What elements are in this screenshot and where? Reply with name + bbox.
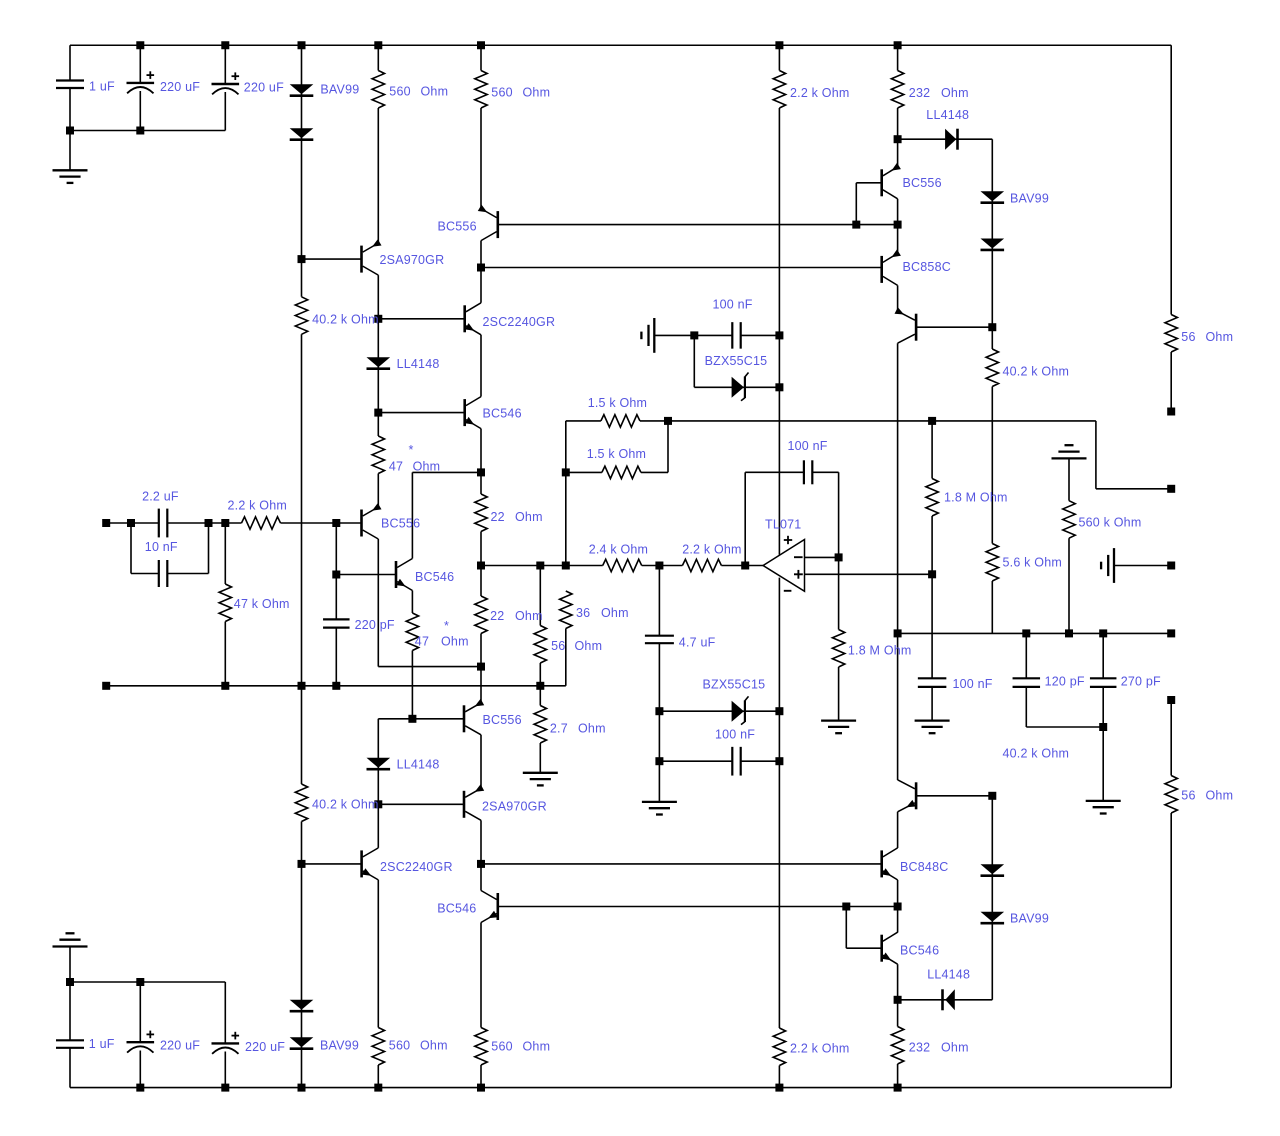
svg-text:BC858C: BC858C <box>903 260 951 274</box>
svg-text:100 nF: 100 nF <box>713 298 753 312</box>
svg-text:560 k Ohm: 560 k Ohm <box>1079 516 1142 530</box>
svg-text:47 k Ohm: 47 k Ohm <box>234 597 290 611</box>
svg-text:BAV99: BAV99 <box>1010 192 1049 206</box>
svg-text:2.2 k Ohm: 2.2 k Ohm <box>682 543 741 557</box>
svg-text:BZX55C15: BZX55C15 <box>703 678 766 692</box>
svg-text:1 uF: 1 uF <box>89 1037 115 1051</box>
svg-text:2.2 k Ohm: 2.2 k Ohm <box>790 86 849 100</box>
svg-text:*: * <box>444 619 449 633</box>
svg-text:232: 232 <box>909 1041 930 1055</box>
svg-text:BC556: BC556 <box>483 713 522 727</box>
svg-text:47: 47 <box>415 635 429 649</box>
svg-text:BC546: BC546 <box>415 570 454 584</box>
svg-text:232: 232 <box>909 86 930 100</box>
svg-text:100 nF: 100 nF <box>953 677 993 691</box>
svg-text:2SA970GR: 2SA970GR <box>380 253 445 267</box>
svg-text:1.8 M Ohm: 1.8 M Ohm <box>848 644 912 658</box>
svg-text:2.2 k Ohm: 2.2 k Ohm <box>790 1042 849 1056</box>
svg-text:5.6 k Ohm: 5.6 k Ohm <box>1003 556 1062 570</box>
svg-text:Ohm: Ohm <box>420 1039 448 1053</box>
svg-text:2SC2240GR: 2SC2240GR <box>483 315 556 329</box>
svg-text:220 uF: 220 uF <box>244 81 284 95</box>
svg-text:56: 56 <box>1181 789 1195 803</box>
svg-text:Ohm: Ohm <box>515 609 543 623</box>
svg-text:BAV99: BAV99 <box>320 1039 359 1053</box>
svg-text:100 nF: 100 nF <box>788 439 828 453</box>
svg-text:LL4148: LL4148 <box>927 968 970 982</box>
svg-text:1.8 M Ohm: 1.8 M Ohm <box>944 491 1008 505</box>
svg-text:Ohm: Ohm <box>441 635 469 649</box>
svg-text:1 uF: 1 uF <box>89 80 115 94</box>
svg-text:22: 22 <box>491 510 505 524</box>
svg-text:22: 22 <box>490 609 504 623</box>
svg-text:100 nF: 100 nF <box>715 728 755 742</box>
svg-text:40.2 k Ohm: 40.2 k Ohm <box>1003 365 1070 379</box>
svg-text:220 pF: 220 pF <box>355 618 395 632</box>
svg-text:2SC2240GR: 2SC2240GR <box>380 860 453 874</box>
svg-text:10 nF: 10 nF <box>145 540 178 554</box>
svg-text:560: 560 <box>389 1039 410 1053</box>
svg-text:1.5 k Ohm: 1.5 k Ohm <box>587 447 646 461</box>
svg-text:BC556: BC556 <box>438 220 477 234</box>
svg-text:47: 47 <box>389 459 403 473</box>
svg-text:LL4148: LL4148 <box>926 108 969 122</box>
svg-text:Ohm: Ohm <box>575 639 603 653</box>
svg-text:Ohm: Ohm <box>515 510 543 524</box>
svg-text:TL071: TL071 <box>765 518 801 532</box>
svg-text:BAV99: BAV99 <box>1010 912 1049 926</box>
svg-text:1.5 k Ohm: 1.5 k Ohm <box>588 396 647 410</box>
svg-text:Ohm: Ohm <box>941 1041 969 1055</box>
svg-text:2.2 uF: 2.2 uF <box>142 489 179 503</box>
svg-text:220 uF: 220 uF <box>160 80 200 94</box>
svg-text:560: 560 <box>389 85 410 99</box>
svg-text:Ohm: Ohm <box>413 459 441 473</box>
svg-text:56: 56 <box>551 639 565 653</box>
svg-text:2.7: 2.7 <box>550 722 568 736</box>
svg-text:40.2 k Ohm: 40.2 k Ohm <box>312 313 379 327</box>
svg-text:Ohm: Ohm <box>523 86 551 100</box>
svg-text:BAV99: BAV99 <box>320 83 359 97</box>
svg-text:40.2 k Ohm: 40.2 k Ohm <box>312 798 379 812</box>
svg-text:BC546: BC546 <box>437 902 476 916</box>
svg-text:560: 560 <box>491 1040 512 1054</box>
svg-text:Ohm: Ohm <box>523 1040 551 1054</box>
svg-text:*: * <box>409 443 414 457</box>
svg-text:BC546: BC546 <box>900 944 939 958</box>
svg-text:Ohm: Ohm <box>1206 330 1234 344</box>
svg-text:40.2 k Ohm: 40.2 k Ohm <box>1003 747 1070 761</box>
svg-text:Ohm: Ohm <box>601 606 629 620</box>
svg-text:4.7 uF: 4.7 uF <box>679 636 716 650</box>
svg-text:LL4148: LL4148 <box>397 357 440 371</box>
svg-text:270 pF: 270 pF <box>1121 675 1161 689</box>
svg-text:BZX55C15: BZX55C15 <box>705 354 768 368</box>
svg-text:560: 560 <box>491 86 512 100</box>
svg-text:BC546: BC546 <box>483 407 522 421</box>
svg-text:Ohm: Ohm <box>421 85 449 99</box>
svg-text:BC556: BC556 <box>903 176 942 190</box>
svg-text:BC556: BC556 <box>381 517 420 531</box>
svg-text:120 pF: 120 pF <box>1045 675 1085 689</box>
svg-text:2.2 k Ohm: 2.2 k Ohm <box>228 499 287 513</box>
svg-text:56: 56 <box>1181 330 1195 344</box>
svg-text:LL4148: LL4148 <box>397 758 440 772</box>
svg-text:Ohm: Ohm <box>941 86 969 100</box>
svg-text:36: 36 <box>576 606 590 620</box>
svg-text:Ohm: Ohm <box>578 722 606 736</box>
svg-text:220 uF: 220 uF <box>160 1039 200 1053</box>
svg-text:BC848C: BC848C <box>900 860 948 874</box>
svg-text:2.4 k Ohm: 2.4 k Ohm <box>589 543 648 557</box>
svg-text:Ohm: Ohm <box>1206 789 1234 803</box>
svg-text:2SA970GR: 2SA970GR <box>482 800 547 814</box>
svg-text:220 uF: 220 uF <box>245 1040 285 1054</box>
